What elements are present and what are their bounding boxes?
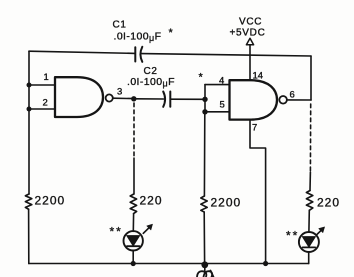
inverter bubble U1a output bbox=[106, 94, 113, 101]
pin number 3 bbox=[117, 87, 122, 98]
svg-text:7: 7 bbox=[252, 123, 257, 134]
VCC arrow symbol bbox=[246, 38, 253, 45]
label C2 bbox=[144, 66, 158, 77]
svg-text:220: 220 bbox=[317, 196, 340, 210]
svg-text:6: 6 bbox=[290, 90, 295, 101]
node ground junction dot bbox=[201, 261, 208, 268]
pin number 1 bbox=[44, 72, 49, 83]
svg-text:+5VDC: +5VDC bbox=[230, 28, 266, 39]
wire pins4/5 node down to resistor 2200 mid bbox=[203, 112, 205, 196]
pin number 5 bbox=[220, 100, 225, 111]
svg-text:.0I-100μF: .0I-100μF bbox=[114, 31, 162, 44]
pin number 4 bbox=[219, 76, 224, 87]
NAND gate U1b bbox=[230, 80, 278, 119]
capacitor C2 bbox=[163, 92, 170, 107]
wire pin 2 bbox=[29, 108, 55, 110]
inverter bubble U1b output bbox=[279, 96, 287, 104]
wire left rail lower bbox=[28, 209, 30, 263]
wire LED to bottom rail (left) bbox=[132, 251, 134, 264]
pin number 2 bbox=[43, 98, 48, 109]
node pin 3 junction dot bbox=[131, 96, 136, 101]
LED D1 (left) bbox=[124, 231, 143, 250]
svg-text:3: 3 bbox=[117, 87, 122, 98]
value label 220 (left) bbox=[140, 194, 163, 208]
wire mid resistor to bottom rail bbox=[203, 212, 205, 262]
resistor 2200 (mid) bbox=[201, 196, 207, 212]
wire bottom rail bbox=[29, 263, 309, 265]
wire dashed pin6 node down bbox=[309, 104, 311, 172]
LED D1 asterisks ** bbox=[110, 225, 123, 239]
svg-text:220: 220 bbox=[140, 194, 163, 208]
wire pin 1 bbox=[29, 84, 55, 86]
wire solid to resistor 220 left bbox=[133, 158, 135, 194]
LED D2 asterisks ** bbox=[286, 229, 299, 243]
resistor 220 (right) bbox=[306, 191, 312, 211]
svg-text:2200: 2200 bbox=[35, 194, 66, 208]
pin number 7 bbox=[252, 123, 257, 134]
wire pin 7 with jog to bottom rail bbox=[250, 120, 266, 264]
svg-text:1: 1 bbox=[44, 72, 49, 83]
value label 220 (right) bbox=[317, 196, 340, 210]
LED D2 (right) bbox=[299, 232, 319, 252]
wire dashed from node 3 down bbox=[133, 103, 135, 158]
label C1 bbox=[113, 20, 127, 31]
svg-text:14: 14 bbox=[253, 71, 264, 82]
wire pin 3 output bbox=[113, 97, 134, 99]
svg-text:.0I-100μF: .0I-100μF bbox=[127, 76, 175, 89]
LED D2 emission arrow bbox=[316, 227, 324, 235]
svg-text:2200: 2200 bbox=[211, 196, 242, 210]
pin number 14 bbox=[253, 71, 264, 82]
wire LED to bottom rail (right) bbox=[308, 252, 310, 264]
wire pin 14 VCC to gate top bbox=[249, 45, 251, 80]
wire resistor to LED (left) bbox=[132, 214, 134, 232]
value label .01-100uF* for C2 bbox=[127, 72, 204, 89]
node pin7 bottom rail dot bbox=[263, 261, 268, 266]
svg-text:C1: C1 bbox=[113, 20, 127, 31]
node LED1 bottom rail dot bbox=[131, 261, 136, 266]
wire C2 to pins 4/5 node bbox=[171, 98, 205, 100]
svg-text:5: 5 bbox=[220, 100, 225, 111]
node pin2 junction dot bbox=[27, 107, 32, 112]
svg-text:VCC: VCC bbox=[239, 17, 262, 28]
svg-text:4: 4 bbox=[219, 76, 224, 87]
svg-text:**: ** bbox=[286, 229, 299, 243]
svg-text:2: 2 bbox=[43, 98, 48, 109]
node pin5 corner junction dot bbox=[202, 109, 207, 114]
wire left rail upper (top rail down past pins 1,2) bbox=[28, 51, 30, 194]
svg-text:*: * bbox=[169, 27, 174, 39]
value label 2200 (mid) bbox=[211, 196, 242, 210]
wire resistor to LED (right) bbox=[308, 210, 310, 232]
pin number 6 bbox=[290, 90, 295, 101]
wire pin 4 bbox=[205, 84, 230, 86]
wire pin 5 bbox=[205, 111, 230, 113]
NAND gate U1a bbox=[55, 77, 103, 117]
label +5VDC bbox=[230, 28, 266, 39]
svg-text:**: ** bbox=[110, 225, 123, 239]
value label .01-100uF* for C1 bbox=[114, 27, 174, 43]
wire pin 6 output bbox=[287, 99, 311, 101]
wire top rail left segment (left rail to C1) bbox=[29, 51, 135, 53]
svg-text:*: * bbox=[199, 72, 204, 84]
wire node3 to C2 bbox=[136, 98, 163, 100]
node pin1 junction dot bbox=[27, 83, 32, 88]
resistor 2200 (left) bbox=[25, 194, 31, 209]
LED D1 emission arrow bbox=[143, 224, 152, 233]
resistor 220 (left) bbox=[130, 194, 136, 214]
capacitor C1 bbox=[135, 47, 142, 62]
ground symbol bbox=[197, 268, 214, 277]
label VCC bbox=[239, 17, 262, 28]
wire solid to resistor 220 right bbox=[309, 172, 311, 191]
value label 2200 (left) bbox=[35, 194, 66, 208]
wire right vertical from top rail to pin 6 bbox=[310, 56, 312, 100]
wire vertical connector pins 4-5 bbox=[204, 85, 206, 112]
wire top rail right segment (C1 to right vertical) bbox=[142, 54, 311, 56]
node C2-right junction dot bbox=[202, 97, 207, 102]
